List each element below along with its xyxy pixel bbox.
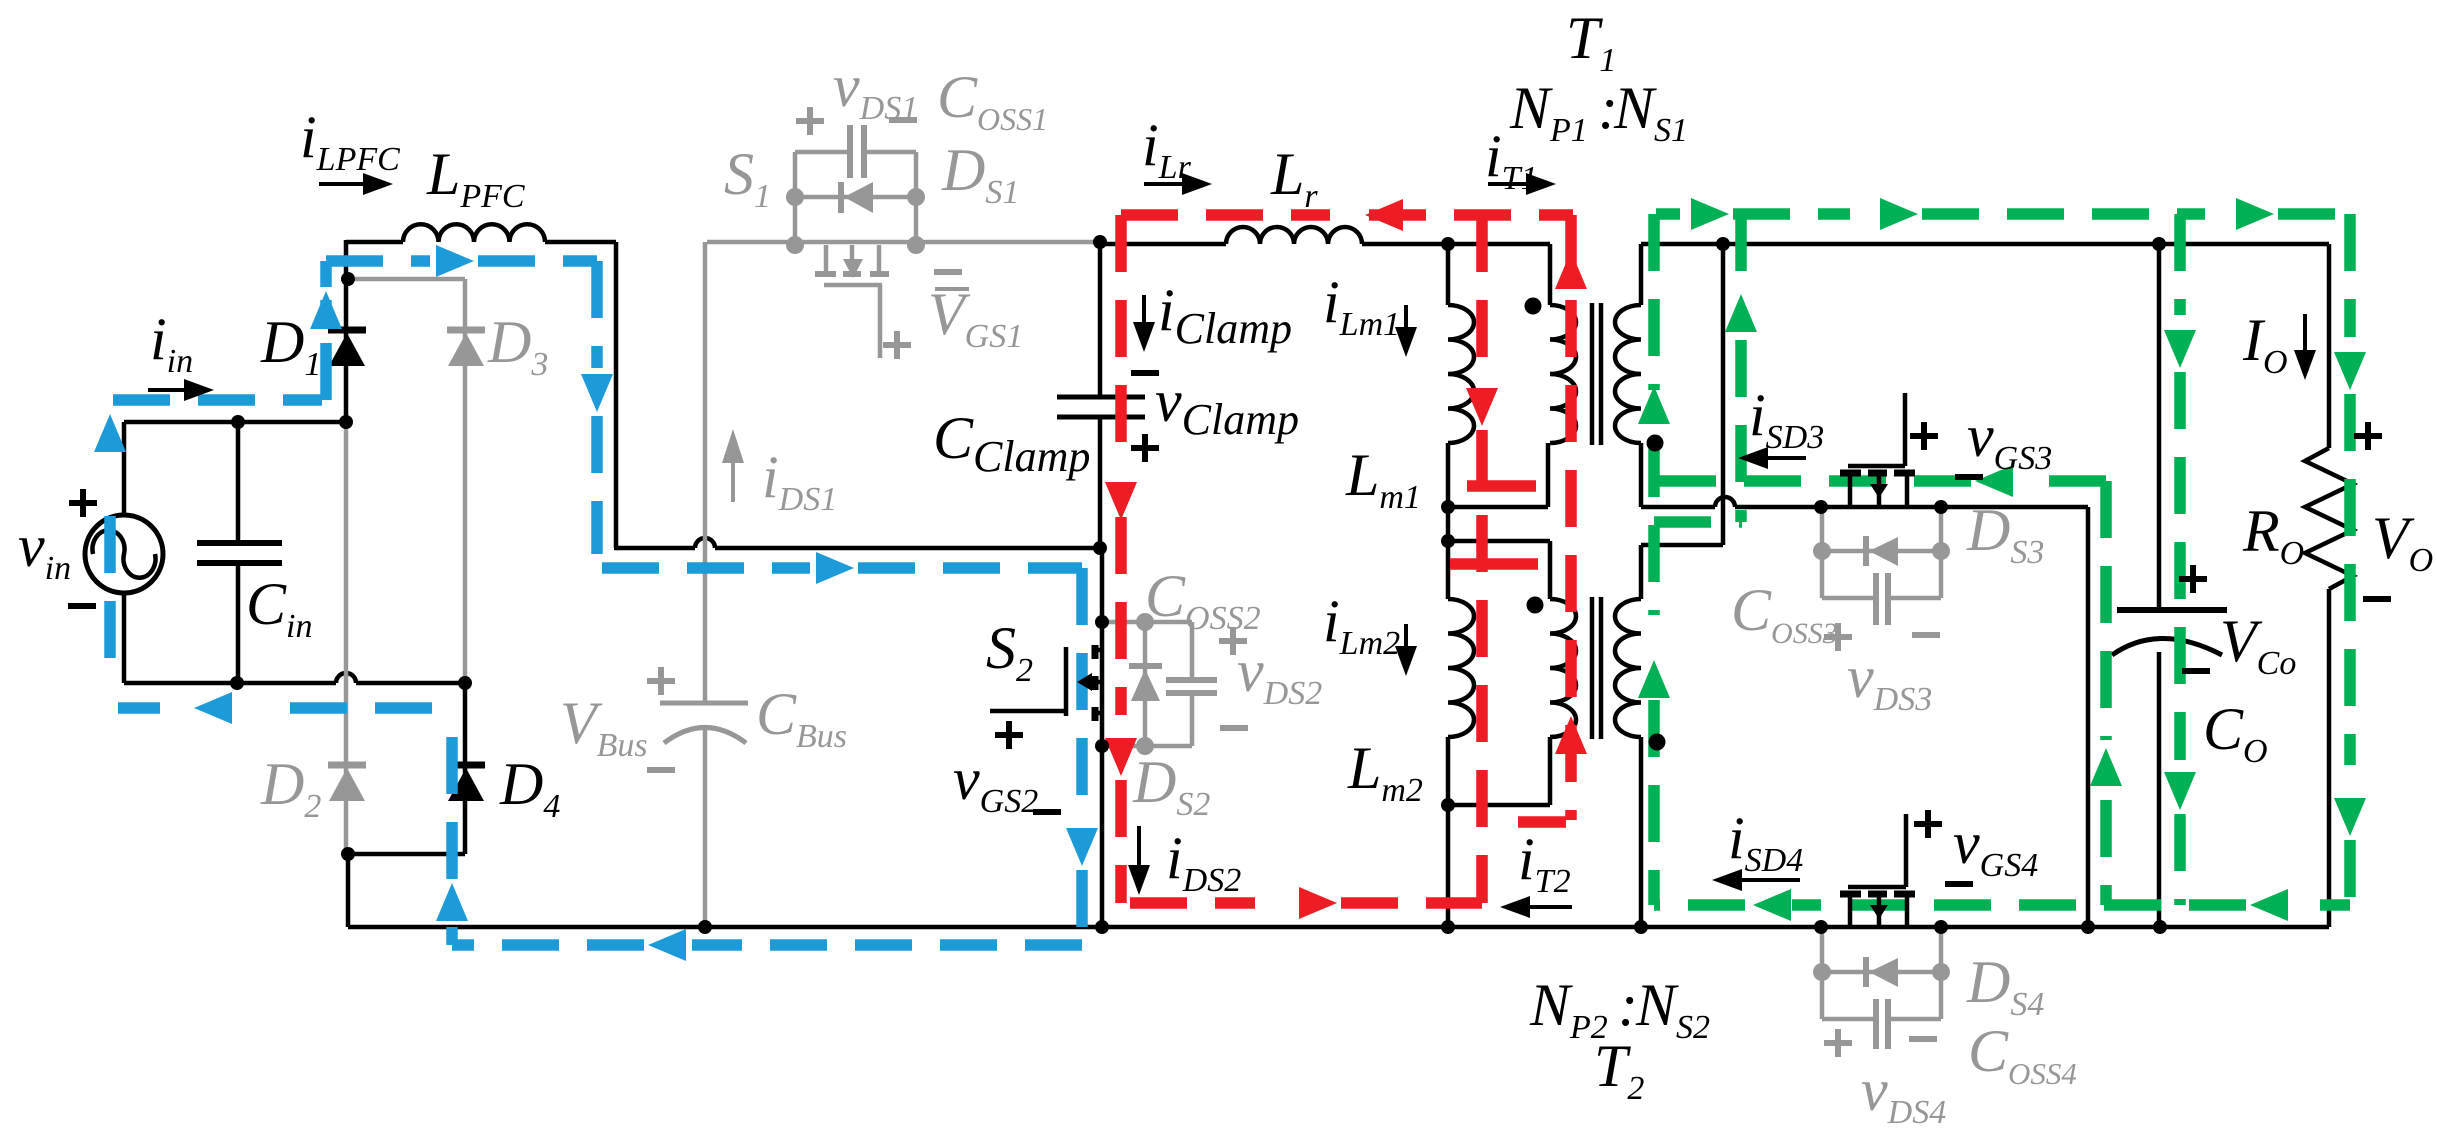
svg-text::: : xyxy=(1618,972,1638,1038)
